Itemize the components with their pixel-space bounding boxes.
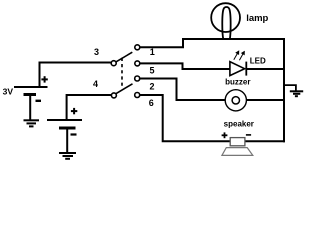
wire speaker to bus <box>245 140 285 142</box>
switch S2 arm <box>116 84 133 94</box>
svg-text:3V: 3V <box>3 86 14 96</box>
LED D1 triangle <box>230 62 245 76</box>
battery B2 negative plate <box>59 127 76 130</box>
wire throw6 to speaker net <box>140 95 230 141</box>
buzzer BZ1 inner circle <box>232 97 239 104</box>
battery B1 negative plate <box>24 93 37 96</box>
wire B2 positive up <box>67 95 112 120</box>
switch S2 throw circle (6) <box>135 93 140 98</box>
wire throw2 to buzzer net <box>140 79 226 101</box>
wire right bus <box>283 38 285 142</box>
svg-text:5: 5 <box>149 66 154 76</box>
speaker LS1 body rect <box>230 138 245 146</box>
wire throw5 to LED net <box>140 63 230 69</box>
svg-text:4: 4 <box>93 79 98 89</box>
switch S1 arm <box>116 52 132 62</box>
battery B2 plus sign <box>71 108 77 114</box>
switch S2 pole circle (4) <box>111 93 116 98</box>
ground G3 <box>290 91 303 96</box>
battery B1 plus sign <box>41 76 47 82</box>
wire buzzer to bus <box>246 99 284 101</box>
wire bus to ground stub <box>284 85 296 91</box>
svg-text:2: 2 <box>149 81 154 91</box>
ground G1 <box>24 120 40 126</box>
wire LED to bus <box>247 68 284 70</box>
battery B2 minus sign <box>71 133 77 135</box>
wire B2 negative down <box>66 128 68 153</box>
svg-text:LED: LED <box>250 57 266 66</box>
speaker LS1 minus sign <box>246 134 251 136</box>
switch S1 throw circle (5) <box>135 61 140 66</box>
svg-text:lamp: lamp <box>246 13 268 24</box>
svg-text:speaker: speaker <box>224 120 254 129</box>
switch S2 throw circle (2) <box>135 76 140 81</box>
battery B1 positive plate <box>14 86 48 88</box>
svg-text:buzzer: buzzer <box>225 78 250 87</box>
svg-text:1: 1 <box>150 47 155 57</box>
speaker LS1 cone <box>222 148 253 156</box>
switch S1 pole circle (3) <box>111 61 116 66</box>
switch S1 throw circle (1) <box>135 45 140 50</box>
LED D1 emission arrows <box>234 51 245 60</box>
battery B2 positive plate <box>47 119 82 121</box>
battery B1 minus sign <box>36 100 42 102</box>
ground G2 <box>59 153 76 159</box>
lamp DS1 filament loop <box>222 7 230 39</box>
LED D1 cathode bar <box>245 62 247 76</box>
svg-text:6: 6 <box>149 98 154 108</box>
wire B1 positive up <box>40 63 112 88</box>
buzzer BZ1 outer circle <box>225 90 246 111</box>
speaker LS1 plus sign <box>222 132 228 138</box>
lamp DS1 circle <box>211 3 240 32</box>
wire B1 negative down <box>29 95 31 121</box>
switch gang dashed link <box>121 58 123 86</box>
svg-text:3: 3 <box>94 47 99 57</box>
wire throw1 to lamp net <box>140 39 284 47</box>
